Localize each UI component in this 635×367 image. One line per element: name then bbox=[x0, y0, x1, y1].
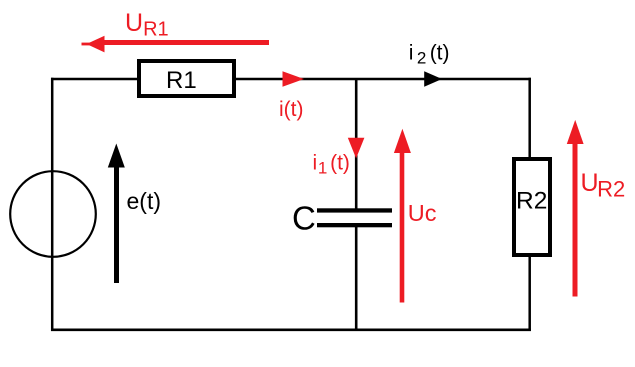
Uc arrow bbox=[394, 129, 411, 303]
e(t) arrow bbox=[108, 144, 125, 284]
capacitor C plates bbox=[317, 208, 392, 227]
svg-text:e(t): e(t) bbox=[127, 188, 162, 214]
U_R2 arrow bbox=[567, 120, 584, 297]
wire top-middle (R1 to right corner) bbox=[234, 78, 531, 81]
voltage source E circle bbox=[10, 171, 96, 257]
wire bottom horizontal bbox=[51, 328, 531, 331]
i1(t) arrowhead bbox=[348, 138, 365, 159]
wire right vertical lower (R2 to bottom) bbox=[528, 254, 531, 331]
svg-text:C: C bbox=[292, 199, 316, 236]
i(t) arrowhead bbox=[283, 71, 305, 87]
svg-text:R2: R2 bbox=[516, 187, 547, 214]
svg-text:Uc: Uc bbox=[408, 200, 437, 226]
svg-text:i(t): i(t) bbox=[279, 98, 304, 121]
wire right vertical upper (corner to R2) bbox=[528, 78, 531, 160]
U_R1 arrow bbox=[82, 36, 270, 53]
i2(t) arrowhead bbox=[424, 71, 442, 86]
wire branch vertical upper (node to capacitor) bbox=[355, 79, 358, 210]
wire top-left (source to R1) bbox=[51, 78, 139, 81]
wire branch vertical lower (capacitor to bottom) bbox=[355, 225, 358, 331]
wire left vertical bbox=[51, 78, 54, 331]
resistor R2 bbox=[514, 159, 550, 255]
svg-text:R1: R1 bbox=[166, 67, 197, 94]
resistor R1 bbox=[139, 61, 234, 96]
